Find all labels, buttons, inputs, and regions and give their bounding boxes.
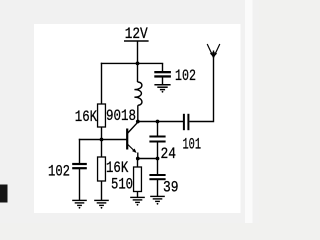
capacitor 39 (149, 174, 165, 180)
wire coil to collector node (137, 105, 139, 121)
svg-text:12V: 12V (125, 25, 148, 43)
junction emitter/C39 (156, 157, 160, 161)
junction C24 tap (156, 120, 160, 124)
svg-text:510: 510 (111, 176, 133, 194)
ground G5 (154, 85, 170, 93)
junction emitter node (136, 157, 140, 161)
antenna (207, 44, 220, 58)
label 510 (111, 176, 133, 194)
svg-text:16K: 16K (75, 108, 98, 126)
svg-text:102: 102 (48, 163, 70, 181)
capacitor 24 (149, 136, 165, 143)
label 39 (163, 179, 179, 197)
label 24 (161, 145, 177, 163)
wire C102b to ground (162, 77, 164, 85)
junction rail/coil (136, 62, 140, 66)
wire base node to C102a (79, 139, 81, 164)
wire C24 top lead (157, 122, 159, 137)
svg-text:24: 24 (161, 145, 177, 163)
label 16K lower (106, 159, 129, 177)
svg-text:101: 101 (183, 135, 202, 153)
svg-text:16K: 16K (106, 159, 129, 177)
wire rail to C102b (162, 63, 164, 72)
ground G3 (130, 197, 145, 205)
resistor 16K lower (98, 157, 106, 181)
label 9018 (106, 107, 136, 125)
wire R1 to base node (101, 127, 103, 140)
wire C24 bottom lead (157, 142, 159, 158)
wire 12V drop (137, 41, 139, 63)
label 16K upper (75, 108, 98, 126)
junction base node (100, 138, 104, 142)
svg-text:9018: 9018 (106, 107, 136, 125)
transistor 9018 (126, 122, 138, 153)
wire R3 to ground (137, 192, 139, 198)
wire C39 top lead (157, 159, 159, 175)
wire collector to C101 (138, 121, 184, 123)
wire R2 to ground (101, 181, 103, 200)
capacitor 102 decoupling (154, 71, 171, 78)
wire emitter to R3 (137, 159, 139, 168)
wire top rail (101, 62, 163, 64)
wire emitter horizontal (138, 158, 158, 160)
wire base node to R2 (101, 140, 103, 158)
ground G1 (72, 200, 87, 208)
junction collector node (136, 120, 140, 124)
wire rail to R1 (101, 63, 103, 105)
ground G4 (150, 196, 165, 204)
svg-text:39: 39 (163, 179, 179, 197)
power rail bar (124, 40, 149, 42)
capacitor 102 base bypass (72, 163, 87, 169)
ground G2 (94, 200, 109, 208)
label 101 (183, 135, 202, 153)
capacitor 101 coupling (183, 114, 190, 130)
wire rail junction to coil (137, 63, 139, 82)
resistor 16K upper (98, 104, 106, 127)
wire C102a to ground (79, 169, 81, 200)
resistor 510 (134, 167, 142, 192)
wire C101 to antenna corner (189, 51, 213, 122)
wire base (79, 139, 127, 141)
wire emitter drop (137, 153, 139, 159)
label 102 right (175, 67, 196, 85)
inductor coil (134, 82, 142, 105)
svg-text:102: 102 (175, 67, 196, 85)
label 102 left (48, 163, 70, 181)
label 12V (125, 25, 148, 43)
wire C39 to ground (157, 180, 159, 197)
